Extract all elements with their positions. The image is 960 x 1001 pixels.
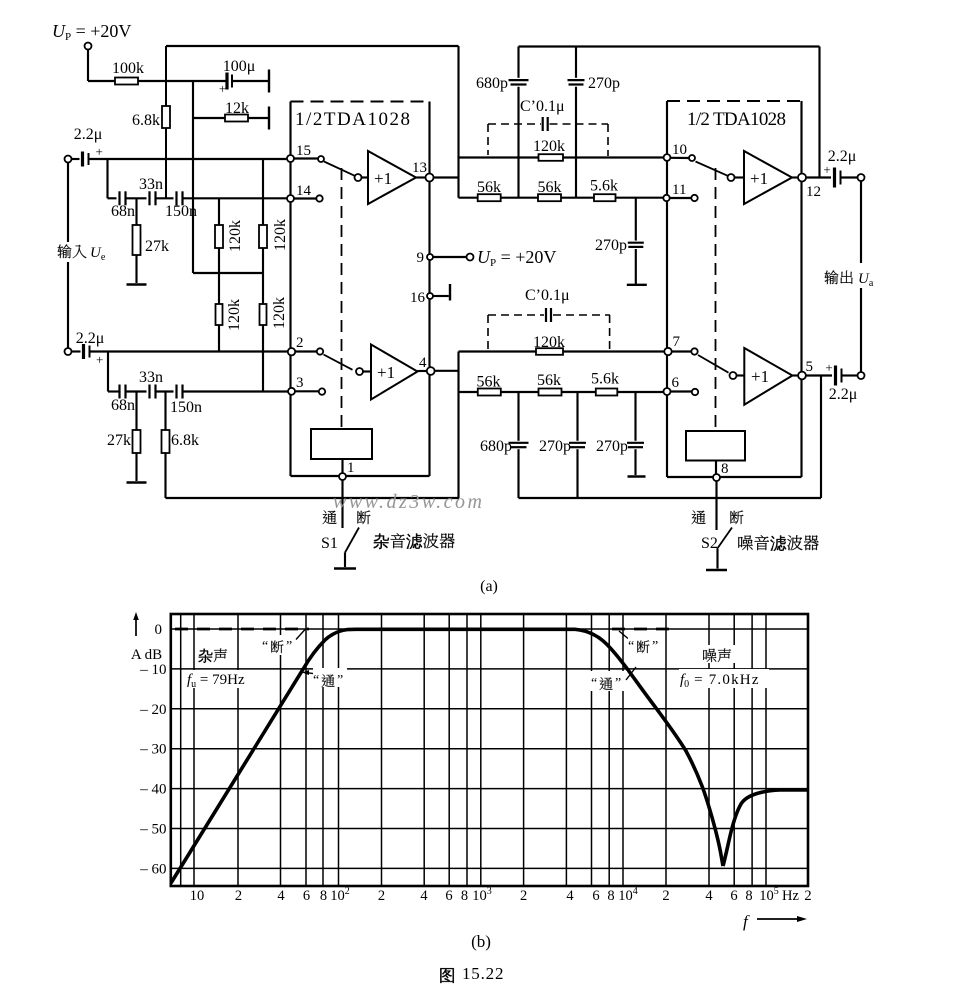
capacitor 68n A [111,191,135,220]
svg-text:2: 2 [804,888,811,904]
wire [635,249,637,284]
wire [341,480,343,528]
svg-text:Hz: Hz [782,888,799,904]
wire [457,46,459,198]
wire [232,80,269,82]
resistor 12k [225,100,249,122]
svg-text:6: 6 [445,888,452,904]
wire (bus left) [166,497,460,499]
capacitor 2.2u input A [72,126,103,167]
capacitor 150n A [165,191,197,220]
control line (dashed) [715,168,717,431]
control block U1 [311,429,372,459]
control line (dashed) [341,168,343,429]
node pin 5 [798,359,813,379]
svg-text:+1: +1 [374,169,392,188]
resistor 6.8k [132,46,170,198]
svg-text:UP = +20V: UP = +20V [52,21,131,43]
svg-text:– 50: – 50 [139,822,166,838]
svg-text:270p: 270p [595,237,627,254]
x-axis name f with arrow [743,912,807,931]
wire [183,390,289,392]
switch S2 blade [717,528,732,550]
control block U2 [686,431,745,461]
wire [294,197,317,199]
dashed 0dB (off) right [612,628,677,631]
wire [842,374,858,376]
wire (bus right) [519,497,822,499]
wire [841,176,858,178]
axis arrow A dB [131,612,162,663]
svg-text:150n: 150n [165,203,197,220]
svg-text:8: 8 [320,888,327,904]
svg-text:270p: 270p [588,75,620,92]
switch contact [317,348,323,354]
node pin 7 [664,334,680,355]
svg-text:“: “ [591,676,597,691]
svg-text:6: 6 [672,375,680,391]
svg-text:12k: 12k [225,100,249,117]
wire [363,370,371,372]
svg-text:3: 3 [296,375,304,391]
annot duan right [619,631,664,655]
curve: response (heavy) [171,629,723,883]
wire [457,352,459,499]
annot f_0 = 7.0kHz [679,669,769,690]
svg-text:(a): (a) [480,578,498,595]
capacitor 2.2u out A [823,148,856,188]
svg-text:11: 11 [672,182,686,198]
label rumble filter [374,533,455,549]
svg-text:100k: 100k [112,60,144,77]
resistor 120k (upper right) [259,159,289,391]
resistor 100k [112,60,144,85]
label S1 [321,535,338,552]
svg-text:”: ” [286,639,292,654]
wire [108,197,117,199]
wire [459,197,664,199]
capacitor 68n B [111,385,135,415]
svg-text:9: 9 [417,250,425,266]
wire [672,350,692,352]
node pin 16 [410,290,433,306]
wire [671,390,692,392]
open contact pin 11 [691,195,697,201]
resistor 27k B [107,392,141,482]
watermark [333,491,482,513]
svg-text:270p: 270p [539,438,571,455]
op-amp buffer +1 (A1) [368,151,416,204]
capacitor 2.2u input B [72,330,105,367]
svg-text:2.2μ: 2.2μ [828,148,857,165]
svg-text:+: + [823,162,830,177]
wire [860,181,862,263]
svg-text:+: + [96,144,103,159]
svg-text:4: 4 [419,355,427,371]
switch blade S-B2 [698,355,729,373]
dashed 0dB (off) left [175,628,309,631]
wire [715,461,717,475]
node: output terminal A [858,174,865,181]
open contact pin 14 [316,195,322,201]
node: input terminal B [65,348,72,355]
capacitor 2.2u out B [825,360,857,403]
node pin 11 [663,182,686,201]
capacitor 150n B [170,385,202,417]
resistor 120k (feedback A) [533,138,565,161]
svg-text:120k: 120k [533,334,565,351]
svg-text:4: 4 [420,888,428,904]
svg-text:C’0.1μ: C’0.1μ [520,98,565,115]
capacitor 270p A [568,75,621,92]
svg-text:S1: S1 [321,535,338,552]
switch contact [355,174,362,181]
svg-text:68n: 68n [111,203,135,220]
svg-text:2: 2 [378,888,385,904]
wire [818,47,820,178]
svg-text:6: 6 [592,888,599,904]
chart grid [171,614,808,886]
svg-text:+1: +1 [377,363,395,382]
svg-text:– 20: – 20 [139,702,166,718]
svg-text:S2: S2 [701,535,718,552]
switch contact [728,174,735,181]
wire [735,176,745,178]
wire [433,256,467,258]
label input U_e [55,242,117,263]
node pin 8 [713,461,729,481]
svg-text:7: 7 [673,334,681,350]
ground S1 [334,567,356,570]
svg-text:13: 13 [412,160,427,176]
wire [192,81,194,273]
wire [820,376,822,499]
svg-text:2: 2 [296,335,304,351]
annot duan left [262,630,305,656]
svg-text:33n: 33n [139,369,163,386]
svg-text:27k: 27k [107,432,131,449]
label S2 [701,535,718,552]
wire [106,159,108,198]
svg-text:+1: +1 [751,367,769,386]
svg-text:680p: 680p [480,438,512,455]
svg-text:1: 1 [347,460,355,476]
IC U1 1/2 TDA1028 box [291,102,430,477]
svg-text:+1: +1 [750,169,768,188]
svg-text:f0 = 7.0kHz: f0 = 7.0kHz [680,672,760,690]
wire [517,392,519,441]
svg-text:”: ” [615,676,621,691]
wire [107,352,109,392]
wire [89,158,287,160]
node pin 4 [419,355,435,375]
wire [459,156,664,158]
wire [792,374,798,376]
svg-text:6: 6 [730,888,737,904]
wire (feedback top right) [519,45,820,47]
svg-text:”: ” [337,673,343,688]
svg-text:27k: 27k [145,238,169,255]
capacitor 270p A2 [595,237,644,254]
wire [575,87,577,198]
capacitor 270p B1 [539,438,586,455]
svg-text:– 40: – 40 [139,782,166,798]
svg-text:100μ: 100μ [223,58,256,75]
svg-text:16: 16 [410,290,426,306]
wire [341,459,343,473]
svg-text:15.22: 15.22 [462,964,504,983]
svg-text:56k: 56k [538,179,562,196]
wire [88,80,228,82]
svg-text:5.6k: 5.6k [590,178,618,195]
capacitor C* 0.1u A (dashed) [488,98,608,156]
svg-text:120k: 120k [227,220,244,252]
node pin 3 [288,375,304,395]
node pin 10 [664,142,687,161]
node pin 15 [287,143,311,162]
resistor 56k A1 [477,179,501,201]
resistor 5.6k B [591,371,619,396]
svg-text:2: 2 [520,888,527,904]
svg-text:fu = 79Hz: fu = 79Hz [187,672,245,690]
wire [737,374,745,376]
curve: notch recovery [723,790,808,866]
node pin 6 [664,375,680,395]
terminal bar [627,284,647,286]
annot tong left [302,668,347,688]
svg-text:0: 0 [155,622,163,638]
ground [127,283,147,286]
wire [156,197,174,199]
terminal bar [628,475,646,477]
label (a) [480,578,498,595]
label tong/duan S1 [323,510,371,524]
svg-text:1/2 TDA1028: 1/2 TDA1028 [687,109,786,130]
resistor 27k A [133,198,170,283]
svg-text:+: + [96,352,103,367]
node: input terminal [65,156,72,163]
IC U2 1/2 TDA1028 box [667,101,802,477]
resistor 120k (upper left) [215,198,244,351]
svg-text:4: 4 [705,888,713,904]
svg-text:8: 8 [607,888,614,904]
wire [416,176,426,178]
svg-text:2.2μ: 2.2μ [74,126,103,143]
op-amp buffer +1 (B1) [744,151,792,204]
wire [575,47,577,78]
wire [715,481,717,530]
svg-text:15: 15 [296,143,311,159]
svg-text:“: “ [628,639,634,654]
wire [434,176,459,178]
svg-text:6.8k: 6.8k [171,432,199,449]
resistor 120k (lower right) [260,297,289,329]
switch blade S-A1 [324,162,355,176]
wire [576,449,578,498]
switch S1 blade [345,528,359,553]
node: U_P supply terminal [85,43,92,50]
svg-text:A dB: A dB [131,647,162,663]
wire [634,392,636,441]
wire [193,117,225,119]
node pin 1 [339,460,355,480]
label tong/duan S2 [692,510,744,524]
resistor 56k A2 [538,179,562,201]
wire [459,350,665,352]
annot tong right [590,667,636,691]
wire [295,390,319,392]
svg-text:120k: 120k [226,299,243,331]
capacitor 680p A [476,75,529,92]
resistor 56k B1 [477,374,501,396]
op-amp buffer +1 (A2) [371,345,418,400]
switch contact [691,348,697,354]
svg-text:120k: 120k [271,297,288,329]
svg-text:120k: 120k [533,138,565,155]
label noise filter [738,535,818,551]
node pin 14 [287,183,312,202]
svg-text:– 30: – 30 [139,742,166,758]
wire [806,176,831,178]
wire [806,374,832,376]
svg-text:(b): (b) [471,932,491,951]
svg-text:5: 5 [806,359,814,375]
svg-text:150n: 150n [170,399,202,416]
op-amp buffer +1 (B2) [744,348,792,405]
svg-text:10: 10 [190,888,205,904]
wire [248,117,269,119]
svg-text:2.2μ: 2.2μ [829,386,858,403]
wire [87,50,89,82]
annot f_u = 79Hz [186,670,258,690]
label (b) [471,932,491,951]
resistor 120k (lower left) [216,299,244,331]
switch contact [730,372,737,379]
resistor 120k (feedback B) [533,334,565,355]
svg-text:”: ” [652,639,658,654]
svg-text:6: 6 [303,888,310,904]
annot za-sheng (rumble) [196,646,236,664]
wire [294,157,318,159]
terminal U_P pin 9 [467,254,474,261]
switch contact [318,156,324,162]
label U_P = +20V (pin 9) [477,247,556,269]
svg-text:+: + [825,360,832,375]
svg-text:680p: 680p [476,75,508,92]
wire [670,157,689,159]
wire [156,390,174,392]
capacitor 33n A [139,176,163,205]
resistor 5.6k A [590,178,618,202]
label U_P = +20V (supply) [52,21,131,43]
wire [635,198,637,241]
x-axis labels [190,886,812,904]
svg-text:+: + [219,81,226,96]
svg-text:6.8k: 6.8k [132,112,160,129]
node pin 9 [417,250,434,266]
svg-text:56k: 56k [537,372,561,389]
chart frame [171,614,808,886]
wire [716,549,718,569]
svg-text:– 60: – 60 [139,861,166,877]
wire [459,391,664,393]
node pin 2 [288,335,304,355]
open contact pin 3 [319,388,325,394]
wire [433,295,449,297]
resistor 6.8k B [162,392,200,499]
wire (bias bus) [193,272,263,274]
svg-text:8: 8 [721,461,729,477]
wire [517,47,519,78]
annot zao-sheng (noise) [700,645,736,663]
wire [126,390,147,392]
svg-text:8: 8 [461,888,468,904]
svg-text:1/2TDA1028: 1/2TDA1028 [295,109,410,130]
svg-text:10: 10 [672,142,687,158]
terminal bar pin 16 [449,284,451,301]
svg-text:270p: 270p [596,438,628,455]
node pin 12 [798,174,821,201]
capacitor C* 0.1u B (dashed) [488,287,610,350]
svg-text:12: 12 [806,184,821,200]
svg-text:33n: 33n [139,176,163,193]
wire [126,197,147,199]
wire [295,350,317,352]
svg-text:“: “ [262,639,268,654]
switch blade S-B1 [696,162,728,176]
svg-text:8: 8 [745,888,752,904]
terminal bar [268,70,270,93]
node: output terminal B [858,372,865,379]
wire [435,370,459,372]
wire (feedback top left) [166,45,459,47]
wire [362,176,369,178]
svg-text:2.2μ: 2.2μ [76,330,105,347]
wire [670,197,692,199]
wire (input common) [67,262,69,348]
wire [183,197,288,199]
ground S2 [706,569,727,572]
svg-text:2: 2 [235,888,242,904]
svg-text:120k: 120k [272,219,289,251]
wire [418,370,427,372]
svg-text:4: 4 [566,888,574,904]
wire [634,449,636,475]
resistor 56k B2 [537,372,562,396]
wire [792,176,798,178]
svg-text:56k: 56k [477,179,501,196]
terminal bar [268,107,270,130]
svg-text:C’0.1μ: C’0.1μ [525,287,570,304]
wire [108,390,120,392]
svg-text:4: 4 [277,888,285,904]
caption fig 15.22 [440,964,504,983]
wire [517,87,519,198]
y-axis labels [139,622,166,877]
svg-text:56k: 56k [477,374,501,391]
switch blade S-A2 [324,355,353,370]
label 1/2TDA1028 [295,109,410,130]
label output U_a [823,268,883,289]
svg-text:“: “ [313,673,319,688]
svg-text:2: 2 [662,888,669,904]
node pin 13 [412,160,434,182]
wire [90,350,288,352]
label 1/2 TDA1028 [687,109,786,130]
capacitor 680p B [480,438,529,455]
wire (input common) [67,163,69,245]
svg-text:68n: 68n [111,397,135,414]
